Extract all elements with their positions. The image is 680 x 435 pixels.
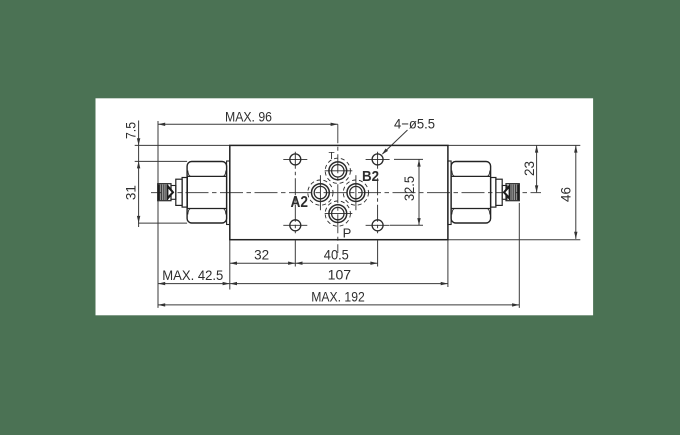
- arrow 23 bottom: [535, 185, 538, 192]
- arrow 40.5 left: [295, 262, 302, 265]
- left stem: [171, 186, 176, 200]
- svg-text:MAX. 96: MAX. 96: [225, 109, 272, 125]
- left hex cap: [187, 162, 227, 224]
- left flange plate: [227, 161, 230, 225]
- arrow 40.5 right: [370, 262, 377, 265]
- svg-text:7.5: 7.5: [123, 122, 139, 139]
- vertical port centerline (x=337.8): [337, 124, 339, 253]
- arrow 32 right: [288, 262, 295, 265]
- svg-text:B2: B2: [362, 168, 379, 185]
- svg-text:31: 31: [123, 185, 139, 200]
- port P: [325, 201, 353, 226]
- svg-text:32: 32: [254, 247, 269, 263]
- dimension line 46 (x=575.8): [575, 145, 577, 239]
- arrow MAX.96 right: [331, 123, 338, 126]
- right flange plate: [448, 161, 451, 225]
- left step collar: [182, 178, 187, 208]
- arrow 7.5 top (down onto body top line): [137, 138, 140, 145]
- right knurled knob: [503, 184, 520, 201]
- mounting hole top-right: [366, 152, 390, 234]
- arrow 23 top: [535, 145, 538, 152]
- body bottom edge extension right: [448, 239, 580, 241]
- body top edge extension right: [448, 144, 580, 146]
- dimension line 7.5/31 vertical (x=138.6): [138, 121, 140, 228]
- svg-text:4−ø5.5: 4−ø5.5: [394, 116, 435, 132]
- arrow 31 bottom (down): [137, 216, 140, 223]
- left knurled knob: [158, 184, 175, 201]
- svg-text:P: P: [343, 225, 352, 240]
- svg-text:T: T: [329, 151, 335, 162]
- extension line right hole column down: [377, 241, 379, 267]
- arrow 107 right: [441, 282, 448, 285]
- white drawing sheet: [96, 98, 594, 315]
- dimension line 23 (x=536.6): [536, 145, 538, 192]
- dimension line MAX.192 (y=305.7): [158, 304, 519, 306]
- arrow MAX.42.5 left: [158, 282, 165, 285]
- right washer flange: [496, 179, 502, 205]
- arrow MAX.42.5 right: [223, 282, 230, 285]
- port B2: [343, 175, 368, 210]
- extension line body left edge down: [229, 241, 231, 290]
- dimension line 32/40.5 (y=263.2): [230, 262, 378, 264]
- body top edge extension left: [135, 144, 230, 146]
- hex bottom edge extension left: [138, 222, 187, 224]
- arrow 7.5/31 at hex top (up): [137, 161, 140, 168]
- svg-text:23: 23: [521, 161, 537, 176]
- leader line 4-o5.5: [383, 130, 408, 154]
- svg-text:MAX. 192: MAX. 192: [311, 289, 365, 305]
- right stem: [502, 186, 507, 200]
- extension line from right knob tip down: [518, 203, 520, 308]
- svg-text:46: 46: [557, 187, 573, 202]
- arrow 32 left: [230, 262, 237, 265]
- port T: [325, 158, 353, 183]
- dimension line 32.5 (x=419): [418, 159, 420, 225]
- svg-text:32.5: 32.5: [401, 176, 417, 201]
- hex top edge extension left: [135, 160, 187, 162]
- arrow leader 4-o5.5: [382, 149, 388, 155]
- right step collar: [491, 178, 496, 208]
- arrow 32.5 bottom: [417, 218, 420, 225]
- extension line upper hole row right: [394, 158, 423, 160]
- svg-text:A2: A2: [291, 194, 309, 211]
- arrow 46 top: [574, 145, 577, 152]
- mounting hole top-left: [283, 152, 307, 234]
- svg-text:107: 107: [328, 267, 352, 283]
- valve body: [230, 145, 448, 239]
- dimension line MAX.96 (y=124.3): [158, 123, 338, 125]
- right hex cap: [451, 162, 491, 224]
- extension line left hole column down: [294, 241, 296, 267]
- arrow 107 left: [230, 282, 237, 285]
- arrow MAX.192 right: [512, 303, 519, 306]
- arrow 32.5 top: [417, 159, 420, 166]
- mounting hole bottom-right: [366, 220, 390, 231]
- horizontal main centerline: [151, 192, 541, 194]
- port A2: [308, 175, 333, 210]
- left washer flange: [176, 179, 182, 205]
- svg-text:MAX. 42.5: MAX. 42.5: [162, 267, 223, 283]
- extension line lower hole row right: [390, 224, 423, 226]
- arrow 46 bottom: [574, 232, 577, 239]
- extension line body right edge down: [447, 241, 449, 288]
- arrow MAX.96 left: [158, 123, 165, 126]
- arrow MAX.192 left: [158, 303, 165, 306]
- extension line from left knob tip (x=158): [157, 121, 159, 308]
- svg-text:40.5: 40.5: [324, 247, 349, 263]
- mounting hole bottom-left: [283, 220, 307, 231]
- dimension line MAX.42.5 + 107 (y=283.8): [158, 283, 448, 285]
